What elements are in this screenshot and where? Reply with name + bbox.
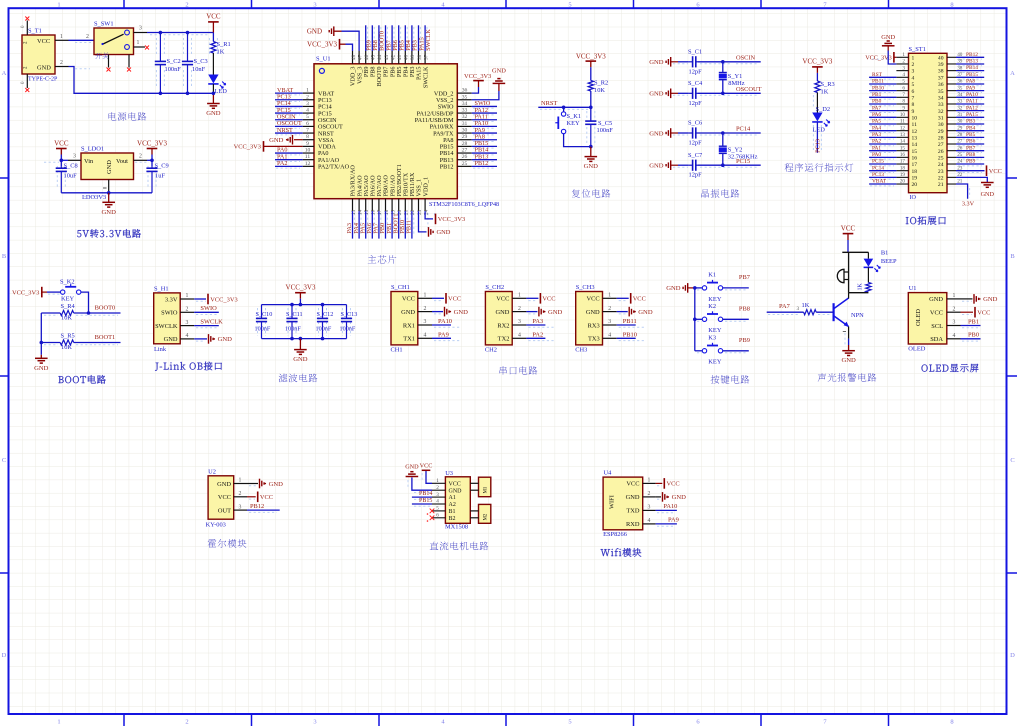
ST1 pin 37 [947,76,956,78]
svg-text:S_CH3: S_CH3 [576,284,595,291]
U1 pin 25 PB12 [457,165,471,167]
svg-text:2: 2 [902,59,905,65]
svg-text:GND: GND [496,309,510,316]
svg-text:PB13: PB13 [966,59,978,65]
wire net PB1 [961,325,981,327]
ST1 pin 22 [947,176,956,178]
wire net PB15 [956,76,984,78]
junctions (filter) [290,303,294,307]
U1 pin 34 SWIO [457,105,471,107]
svg-text:VCC: VCC [37,38,50,45]
ST1 pin 5 [896,83,908,85]
svg-text:GND: GND [649,91,664,98]
LED inside B1 [867,252,869,258]
wire net PB3 [411,25,413,51]
svg-text:TX2: TX2 [498,336,510,343]
U3 pin 6 no connect [430,516,435,521]
svg-text:12pF: 12pF [689,100,703,107]
svg-text:33: 33 [938,102,944,108]
svg-text:KEY: KEY [708,359,722,366]
CH3 pin 3 RX3 [603,324,617,326]
svg-text:26: 26 [462,154,468,160]
svg-text:S_D2: S_D2 [816,106,831,113]
svg-text:48: 48 [351,54,357,60]
svg-text:3: 3 [953,320,956,326]
svg-text:VDD_1: VDD_1 [422,177,429,197]
svg-text:SWIO: SWIO [200,305,217,312]
svg-text:GND: GND [102,209,117,216]
svg-text:U3: U3 [445,470,453,477]
svg-text:9: 9 [912,109,915,115]
U1 pin 43 PB7 [385,51,387,64]
svg-text:PA10: PA10 [438,318,452,325]
svg-text:GND: GND [981,191,995,198]
svg-text:VCC: VCC [449,481,461,487]
node NRST wire [538,106,591,108]
connector CH1 [391,292,418,345]
U1 pin 38 PA15 [418,51,420,64]
U1 pin 48 VDD_3 [352,51,354,64]
T1 pin 2 GND [55,66,69,68]
capacitor C4 [678,92,689,94]
svg-text:MX1508: MX1508 [445,524,468,531]
svg-text:PA1: PA1 [872,145,881,151]
ground (bottom of U1) [428,227,430,237]
svg-text:16: 16 [900,152,906,158]
CH3 pin 2 GND [603,311,617,313]
svg-text:25: 25 [462,161,468,167]
svg-text:17: 17 [377,209,383,215]
U1 pin 20 PB2/BOOT1 [398,199,400,211]
svg-text:1K: 1K [802,302,810,309]
svg-text:100nF: 100nF [165,66,182,73]
svg-text:8: 8 [306,134,309,140]
ST1 pin 16 [896,156,908,158]
wire net PB9 [365,25,367,51]
svg-text:PB5: PB5 [966,132,976,138]
svg-text:OSCIN: OSCIN [736,55,756,62]
svg-text:24: 24 [938,162,944,168]
svg-text:21: 21 [938,182,944,188]
title 按键电路 [711,375,720,384]
wire net PA2 [275,165,303,167]
svg-text:GND: GND [638,309,653,316]
svg-text:NPN: NPN [851,312,864,319]
svg-text:S_C5: S_C5 [598,120,612,127]
buzzer B1 BEEP [837,269,844,282]
svg-text:3: 3 [139,26,142,32]
ST1 pin 30 [947,123,956,125]
svg-text:10K: 10K [61,315,72,322]
U1 pin 29 PA8 [457,139,471,141]
power VCC (CH2) [539,293,541,304]
wire net PB6 [956,143,984,145]
svg-text:VCC: VCC [402,296,415,303]
svg-text:17: 17 [912,162,918,168]
ST1 pin 25 [947,156,956,158]
wire CH1.1 to VCC [432,297,444,299]
svg-text:PB7: PB7 [966,145,976,151]
svg-text:S_C7: S_C7 [688,152,703,159]
svg-text:22: 22 [938,175,944,181]
CH2 pin 2 GND [512,311,526,313]
svg-text:27: 27 [462,148,468,154]
svg-text:GND: GND [649,130,664,137]
wire net BOOT0 [378,25,380,51]
svg-text:4: 4 [306,108,309,114]
wire net SWCLK [194,325,219,327]
svg-text:GND: GND [666,285,681,292]
capacitor C11 [291,305,293,319]
svg-text:KEY: KEY [567,120,581,127]
wire emitter to GND [848,327,850,339]
svg-text:3.3V: 3.3V [165,296,178,303]
ST1 pin 12 [896,130,908,132]
svg-text:GND: GND [37,65,51,72]
title 滤波电路 [279,374,288,383]
wire CH1.2 to GND [432,311,443,313]
svg-text:S_R1: S_R1 [217,41,231,48]
CH2 pin 4 TX2 [512,337,526,339]
svg-text:37: 37 [423,54,429,60]
svg-text:100nF: 100nF [316,326,332,333]
svg-text:S_C13: S_C13 [341,311,358,318]
svg-text:27: 27 [938,142,944,148]
svg-text:PB1: PB1 [872,92,882,98]
wire net PB12 [472,165,497,167]
svg-text:12pF: 12pF [689,68,703,75]
resistor R1 [212,33,214,42]
svg-text:BOOT1: BOOT1 [95,334,116,341]
svg-text:VCC: VCC [206,13,221,21]
U1 pin 26 PB13 [457,159,471,161]
svg-text:38: 38 [417,54,423,60]
svg-text:VCC: VCC [626,481,639,488]
wire Vin [61,159,68,161]
U1 pin 2 PC13 [303,99,314,101]
svg-text:3: 3 [797,306,800,312]
svg-text:GND: GND [401,309,415,316]
U1 pin 27 PB14 [457,152,471,154]
U3 pin 4 A2 [432,503,445,505]
wire net PA5 [365,211,367,239]
title 电源电路 [109,112,117,120]
wire K1 to net PB7 [723,287,749,289]
module U4 ESP8266 [603,477,643,530]
U1 pin 35 VSS_2 [457,99,471,101]
ST1 pin 29 [947,130,956,132]
svg-text:40: 40 [938,55,944,61]
wire net PA2 [869,143,896,145]
LDO1 gnd pin [108,180,110,193]
wire net PB15 [412,503,432,505]
key K1 (reset) [561,112,565,116]
svg-text:42: 42 [390,54,396,60]
svg-text:2: 2 [648,491,651,497]
svg-text:8: 8 [902,99,905,105]
title 5V转3.3V电路 [77,230,81,237]
U1 pin 12 PA2/TX/AO [303,165,314,167]
svg-text:1K: 1K [858,283,864,291]
wire net PB11 [411,211,413,239]
svg-text:5: 5 [902,79,905,85]
svg-text:1: 1 [608,293,611,299]
svg-text:7: 7 [902,92,905,98]
H1 pin 2 SWIO [180,311,194,313]
wire net PB1 [391,211,393,239]
capacitor C6 [678,132,689,134]
svg-text:100nF: 100nF [340,326,356,333]
ST1 pin 1 [896,56,908,58]
U2 pin 2 VCC [234,496,247,498]
svg-text:12: 12 [900,125,906,131]
svg-text:PB10: PB10 [623,332,637,339]
capacitor C13 [346,305,348,319]
wire net PB0 [869,103,896,105]
wire net PB0 [961,338,981,340]
ST1 pin 34 [947,96,956,98]
svg-text:PC15: PC15 [872,159,884,165]
svg-text:PB3: PB3 [966,119,976,125]
U1 pin 46 PB9 [365,51,367,64]
capacitor C3 [187,33,189,62]
svg-text:5: 5 [568,1,571,8]
svg-text:A: A [2,70,7,77]
title 霍尔模块 [208,539,217,547]
svg-text:KEY: KEY [61,295,75,302]
svg-text:NRST: NRST [277,127,293,134]
wire net PC13 [275,99,303,101]
svg-text:PC13: PC13 [815,139,822,153]
svg-text:VCC_3V3: VCC_3V3 [802,58,832,66]
svg-text:PB11: PB11 [406,220,413,234]
wire keys rail [694,288,696,351]
svg-text:GND: GND [217,481,231,488]
svg-text:33: 33 [462,108,468,114]
resistor R4 [41,312,60,314]
svg-text:21: 21 [404,209,410,215]
svg-text:1K: 1K [217,49,225,56]
svg-text:LED: LED [813,127,826,134]
svg-text:S_Y2: S_Y2 [728,147,743,154]
svg-text:VCC_3V3: VCC_3V3 [576,53,606,61]
ground at ST1 pin 22 [956,177,987,182]
title 声光报警电路 [818,373,826,382]
U1 pin 13 PA3/RX/AO [352,199,354,211]
svg-text:10K: 10K [594,87,605,94]
ST1 pin 39 [947,63,956,65]
svg-text:VCC: VCC [930,310,943,317]
svg-text:Vin: Vin [84,158,94,165]
svg-text:LED: LED [215,88,228,95]
svg-text:VCC: VCC [448,296,461,303]
U1 pin 8 VSSA [303,139,314,141]
svg-text:GND: GND [649,59,664,66]
wire CH3.1 to VCC [617,297,629,299]
svg-text:2: 2 [436,485,439,491]
svg-text:4: 4 [648,518,651,524]
svg-text:ESP8266: ESP8266 [603,531,627,538]
svg-text:36: 36 [462,88,468,94]
svg-text:4: 4 [518,333,521,339]
svg-text:PA2/TX/AO: PA2/TX/AO [318,164,350,171]
power VCC (hall) [257,492,259,503]
svg-text:S_R3: S_R3 [821,81,835,88]
ST1 pin 38 [947,70,956,72]
svg-text:1: 1 [137,40,140,46]
svg-text:WIFI: WIFI [609,495,616,509]
svg-text:B1: B1 [449,509,456,515]
svg-text:3: 3 [436,492,439,498]
svg-text:S_C4: S_C4 [688,80,703,87]
wire net PC15 [275,112,303,114]
wire net VBAT [869,183,896,185]
T1 bottom pin [26,74,28,88]
OLED pin 4 SDA [947,338,961,340]
svg-text:25: 25 [938,155,944,161]
svg-text:A1: A1 [449,495,456,501]
connector M2 (motor 2) [479,504,491,523]
svg-text:S_C6: S_C6 [688,120,702,127]
LDO1 pin 2 [134,159,148,161]
svg-text:VCC: VCC [542,296,555,303]
wire net PB13 [472,159,497,161]
ST1 pin 31 [947,116,956,118]
svg-text:B: B [1010,253,1015,260]
ST1 pin 13 [896,136,908,138]
svg-text:8: 8 [912,102,915,108]
svg-text:19: 19 [900,172,906,178]
wire net PA6 [869,116,896,118]
svg-text:6: 6 [436,513,439,519]
svg-text:20: 20 [900,179,906,185]
CH1 pin 4 TX1 [418,337,432,339]
ST1 pin 9 [896,110,908,112]
svg-text:VCC_3V3: VCC_3V3 [234,144,261,151]
svg-text:M2: M2 [484,513,489,520]
U1 pin 45 PB8 [371,51,373,64]
svg-text:S_C2: S_C2 [167,58,181,65]
U1 pin 33 PA12/USB/DP [457,112,471,114]
wire T1.1 to SW1.2 [69,39,95,41]
svg-text:24: 24 [423,209,429,215]
ST1 pin 17 [896,163,908,165]
svg-text:PA0: PA0 [872,152,881,158]
svg-text:2: 2 [239,491,242,497]
U1 pin 3 PC14 [303,105,314,107]
wire U1 pin 24 to VCC_3V3 [425,211,433,219]
wire net PA0 [275,152,303,154]
U1 pin 5 OSCIN [303,119,314,121]
U1 pin 6 OSCOUT [303,125,314,127]
wire net PC14 [869,170,896,172]
key K1 [695,287,702,289]
svg-text:PB4: PB4 [966,125,976,131]
wire K2 to R4 [81,292,89,313]
svg-text:3: 3 [424,319,427,325]
ground GND (alarm) [848,345,850,351]
ground GND (motor) [406,476,419,478]
wire net PA5 [869,123,896,125]
svg-text:S_C1: S_C1 [688,49,702,56]
crystal Y1 [722,62,724,73]
wire net NRST [275,132,303,134]
svg-text:PB1: PB1 [968,318,979,325]
U1 pin 44 BOOT0 [378,51,380,64]
wire net PC15 [869,163,896,165]
resistor 1K (base) [804,310,817,315]
U1 pin 16 PA6/AO [371,199,373,211]
wire net PB11 [617,324,636,326]
wire net PB14 [472,152,497,154]
svg-text:2: 2 [518,306,521,312]
svg-text:PC14: PC14 [872,165,884,171]
wire net PB14 [412,496,432,498]
connector CH2 [485,292,512,345]
svg-text:5: 5 [912,82,915,88]
connector H1 (J-Link) [154,293,181,344]
svg-text:GND: GND [106,160,113,174]
svg-text:3: 3 [73,154,76,160]
svg-text:Link: Link [154,346,167,353]
wire net PA2 [526,337,545,339]
wire net PA4 [869,130,896,132]
svg-text:100nF: 100nF [255,326,271,333]
wire top rail [262,304,347,306]
svg-text:39: 39 [410,54,416,60]
T1 pin 1 VCC [55,39,69,41]
svg-text:2: 2 [185,719,188,726]
title 串口电路 [499,366,507,375]
ST1 pin 14 [896,143,908,145]
svg-text:6: 6 [306,121,309,127]
svg-text:VCC: VCC [54,140,69,148]
svg-text:26: 26 [938,149,944,155]
svg-text:11: 11 [305,154,311,160]
svg-text:PB8: PB8 [739,306,750,313]
svg-text:1uF: 1uF [155,173,165,180]
U1 pin 17 PA7/AO [378,199,380,211]
U3 pin 5 no connect [430,509,435,514]
wire net PA15 [418,25,420,51]
svg-text:S_CH1: S_CH1 [391,284,410,291]
power VCC (CH1) [445,293,447,304]
svg-text:28: 28 [462,141,468,147]
ST1 pin 8 [896,103,908,105]
svg-text:PB15: PB15 [966,72,978,78]
svg-text:VCC: VCC [587,296,600,303]
U4 pin 1 VCC [643,482,656,484]
IC U1 STM32F103C8T6 main MCU [314,64,457,199]
wire GND to U1 pin 47 [342,31,360,51]
capacitor C8 [60,167,62,169]
svg-text:PB9: PB9 [739,337,750,344]
wire net PA10 [656,509,677,511]
wire top rail (alarm) [842,251,868,253]
svg-text:PB12: PB12 [966,52,978,58]
svg-text:S_C8: S_C8 [64,163,78,170]
svg-text:PA4: PA4 [872,125,881,131]
wire net PB6 [391,25,393,51]
svg-text:PB7: PB7 [739,274,751,281]
wire U2.2 to VCC [247,496,256,498]
wire collector rail [849,292,869,294]
module U3 MX1508 [445,477,470,524]
svg-text:8: 8 [950,1,953,8]
svg-text:VCC: VCC [218,494,231,501]
svg-text:RX1: RX1 [403,322,415,329]
svg-text:C: C [2,457,6,464]
